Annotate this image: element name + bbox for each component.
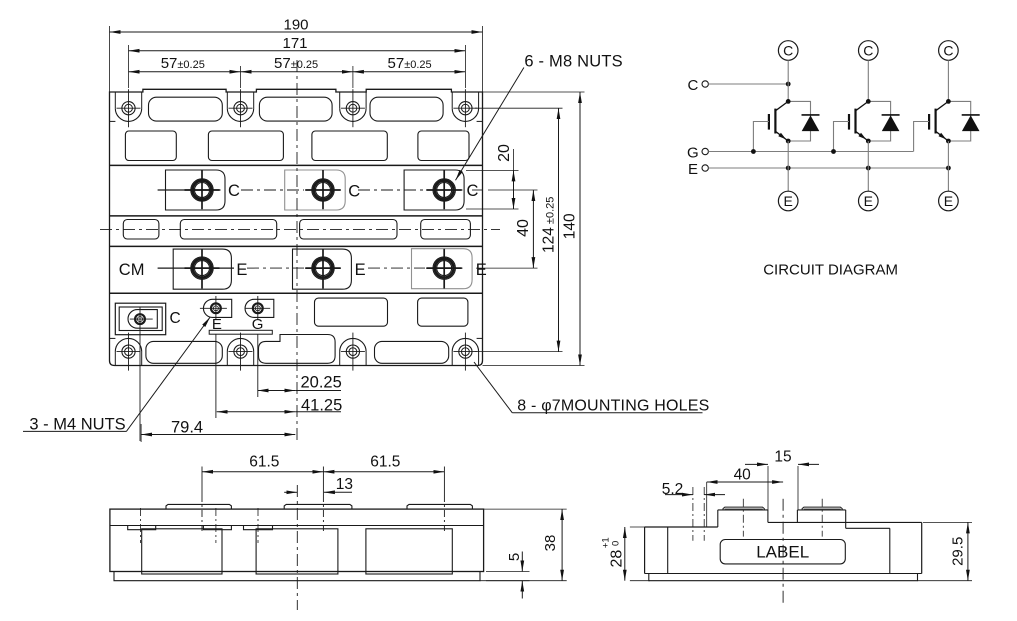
svg-text:15: 15 [774,449,791,466]
svg-text:20.25: 20.25 [301,373,342,391]
svg-text:20: 20 [496,144,513,162]
svg-text:E: E [784,193,793,209]
svg-text:79.4: 79.4 [171,419,203,437]
svg-text:190: 190 [283,16,308,33]
svg-text:29.5: 29.5 [950,537,967,566]
svg-text:38: 38 [542,535,559,552]
svg-text:CM: CM [119,261,145,279]
svg-text:E: E [476,261,487,279]
svg-text:40: 40 [515,219,532,237]
svg-text:E: E [864,193,873,209]
svg-text:C: C [348,183,360,201]
svg-text:61.5: 61.5 [370,454,400,471]
svg-text:13: 13 [336,476,353,493]
svg-text:0: 0 [611,541,622,546]
svg-text:CIRCUIT DIAGRAM: CIRCUIT DIAGRAM [763,262,898,279]
svg-text:5.2: 5.2 [662,481,684,498]
svg-text:140: 140 [562,213,579,239]
svg-text:E: E [236,261,247,279]
svg-text:C: C [688,77,699,94]
svg-text:C: C [467,182,479,200]
svg-text:6 - M8 NUTS: 6 - M8 NUTS [524,52,622,70]
svg-text:C: C [943,43,953,59]
svg-text:C: C [863,43,873,59]
svg-text:C: C [783,43,793,59]
svg-text:8 - φ7MOUNTING HOLES: 8 - φ7MOUNTING HOLES [517,397,709,414]
svg-text:E: E [944,193,953,209]
svg-text:28: 28 [608,550,625,568]
svg-text:171: 171 [282,35,307,52]
svg-text:G: G [687,145,699,162]
svg-text:E: E [688,161,698,178]
svg-text:C: C [170,310,181,327]
svg-text:E: E [355,261,366,279]
svg-text:40: 40 [734,467,752,484]
svg-text:5: 5 [506,553,523,561]
svg-text:41.25: 41.25 [301,397,342,415]
svg-text:C: C [228,182,240,200]
svg-text:61.5: 61.5 [249,454,279,471]
